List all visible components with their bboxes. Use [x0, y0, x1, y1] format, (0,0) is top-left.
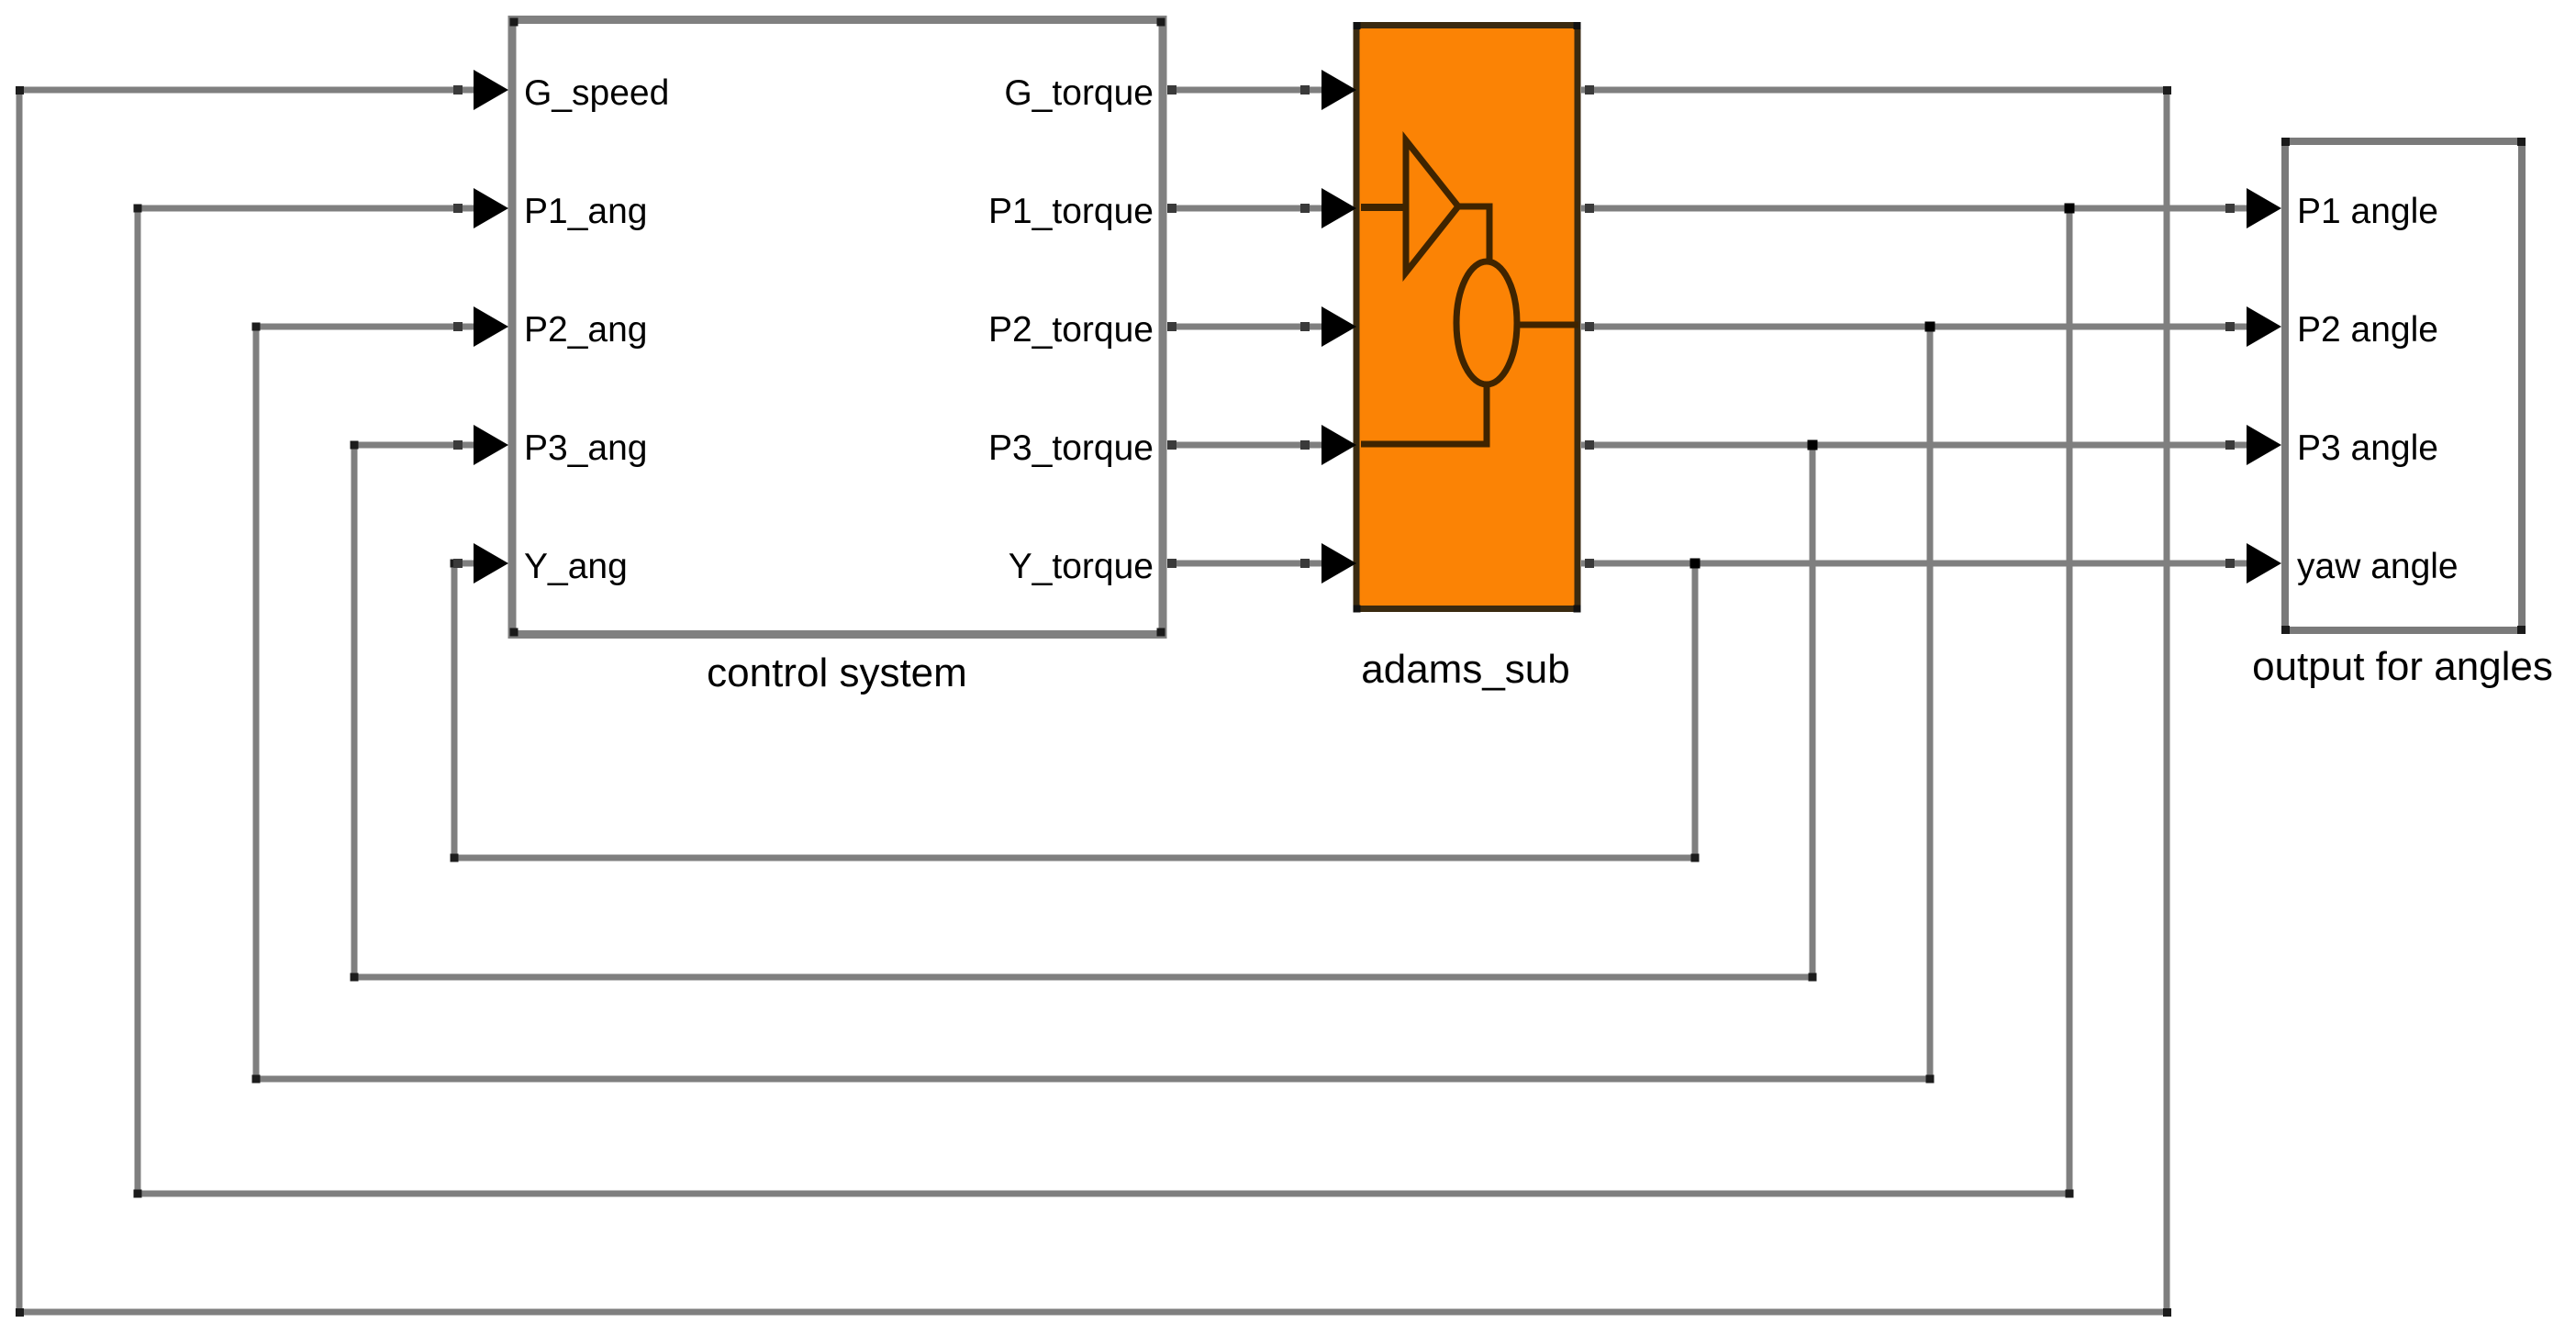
arrowhead into output P3 angle	[2247, 425, 2281, 465]
svg-text:P1_ang: P1_ang	[524, 192, 647, 231]
svg-text:yaw angle: yaw angle	[2297, 547, 2459, 586]
pre-arrow nub adams in P1	[1300, 204, 1310, 213]
wire Y out to output block	[1581, 561, 2252, 567]
arrowhead into control P1_ang	[474, 188, 508, 228]
corner dot Y loop bottom left	[451, 854, 459, 862]
adams icon ellipse bottom link	[1361, 384, 1487, 444]
arrowhead into output P1 angle	[2247, 188, 2281, 228]
wire Y feedback loop	[454, 563, 1695, 858]
corner dot G loop top left	[16, 86, 24, 94]
wire P2 feedback loop	[256, 327, 1930, 1079]
wire start nub P1_torque	[1167, 204, 1176, 213]
svg-text:P1_torque: P1_torque	[988, 192, 1154, 231]
wire start nub Y_torque	[1167, 559, 1176, 568]
wire P2_torque control to adams	[1167, 324, 1326, 330]
junction dot P1 branch	[2065, 204, 2075, 214]
corner dot Y loop bottom right	[1691, 854, 1700, 862]
svg-text:P3_ang: P3_ang	[524, 428, 647, 468]
block output for angles	[2281, 138, 2526, 634]
pre-arrow nub P2_ang	[453, 322, 463, 331]
svg-text:control system: control system	[707, 650, 967, 695]
block adams_sub	[1354, 22, 1581, 613]
wire P1 out to output block	[1581, 206, 2252, 212]
svg-text:P3_torque: P3_torque	[988, 428, 1154, 468]
corner dot P1 loop bottom left	[134, 1190, 142, 1198]
svg-text:P3 angle: P3 angle	[2297, 428, 2438, 468]
corner dot P2 loop bottom left	[252, 1075, 261, 1084]
pre-arrow nub output P1 angle	[2225, 204, 2235, 213]
wire start nub P3_torque	[1167, 440, 1176, 450]
arrowhead into adams P2	[1321, 306, 1356, 347]
adams icon input line	[1361, 204, 1406, 211]
pre-arrow nub Y_ang	[453, 559, 463, 568]
pre-arrow nub output P2 angle	[2225, 322, 2235, 331]
svg-text:P2 angle: P2 angle	[2297, 310, 2438, 350]
wire start nub adams out Y	[1585, 559, 1594, 568]
arrowhead into control Y_ang	[474, 543, 508, 584]
corner dot P1 loop bottom right	[2066, 1190, 2074, 1198]
pre-arrow nub P3_ang	[453, 440, 463, 450]
block control system	[510, 18, 1165, 637]
wire Y_torque control to adams	[1167, 561, 1326, 567]
corner dot P1 loop top left	[134, 205, 142, 213]
adams icon ellipse right link	[1517, 322, 1578, 328]
svg-text:Y_torque: Y_torque	[1009, 547, 1154, 586]
arrowhead into adams Y	[1321, 543, 1356, 584]
junction dot P2 branch	[1925, 322, 1935, 332]
pre-arrow nub P1_ang	[453, 204, 463, 213]
corner dot P2 loop top left	[252, 323, 261, 331]
wire start nub adams out G	[1585, 85, 1594, 94]
arrowhead into control G_speed	[474, 70, 508, 110]
adams icon amplifier triangle	[1406, 140, 1458, 272]
corner dot G loop bottom right	[2163, 1308, 2171, 1317]
svg-text:P2_torque: P2_torque	[988, 310, 1154, 350]
wire P3 out to output block	[1581, 442, 2252, 449]
corner dot P3 loop top left	[351, 441, 359, 450]
wire start nub adams out P3	[1585, 440, 1594, 450]
arrowhead into output yaw angle	[2247, 543, 2281, 584]
corner dot P3 loop bottom right	[1809, 973, 1817, 982]
arrowhead into output P2 angle	[2247, 306, 2281, 347]
pre-arrow nub adams in P2	[1300, 322, 1310, 331]
pre-arrow nub adams in Y	[1300, 559, 1310, 568]
svg-text:output for angles: output for angles	[2252, 644, 2553, 689]
pre-arrow nub adams in G	[1300, 85, 1310, 94]
corner dot P3 loop bottom left	[351, 973, 359, 982]
svg-text:P2_ang: P2_ang	[524, 310, 647, 350]
wire start nub adams out P1	[1585, 204, 1594, 213]
svg-text:G_torque: G_torque	[1004, 73, 1154, 113]
corner dot Y loop top left	[451, 560, 459, 568]
corner dot G loop top right	[2163, 86, 2171, 94]
wire P1_torque control to adams	[1167, 206, 1326, 212]
pre-arrow nub adams in P3	[1300, 440, 1310, 450]
arrowhead into adams P1	[1321, 188, 1356, 228]
arrowhead into adams P3	[1321, 425, 1356, 465]
arrowhead into control P2_ang	[474, 306, 508, 347]
wire P3_torque control to adams	[1167, 442, 1326, 449]
pre-arrow nub output yaw angle	[2225, 559, 2235, 568]
wire start nub G_torque	[1167, 85, 1176, 94]
adams icon apex link line	[1458, 206, 1489, 263]
wire G_torque control to adams	[1167, 87, 1326, 94]
pre-arrow nub output P3 angle	[2225, 440, 2235, 450]
junction dot Y branch	[1690, 559, 1701, 569]
arrowhead into adams G	[1321, 70, 1356, 110]
svg-text:Y_ang: Y_ang	[524, 547, 628, 586]
wire start nub P2_torque	[1167, 322, 1176, 331]
corner dot P2 loop bottom right	[1926, 1075, 1935, 1084]
svg-text:G_speed: G_speed	[524, 73, 669, 113]
arrowhead into control P3_ang	[474, 425, 508, 465]
corner dot G loop bottom left	[16, 1308, 24, 1317]
wire P1 feedback loop	[138, 208, 2069, 1194]
wire P3 feedback loop	[354, 445, 1812, 977]
wire G feedback loop	[19, 90, 2167, 1312]
svg-text:adams_sub: adams_sub	[1361, 647, 1569, 692]
adams icon ellipse	[1456, 261, 1517, 384]
junction dot P3 branch	[1808, 440, 1818, 450]
wire start nub adams out P2	[1585, 322, 1594, 331]
wire P2 out to output block	[1581, 324, 2252, 330]
pre-arrow nub G_speed	[453, 85, 463, 94]
svg-text:P1 angle: P1 angle	[2297, 192, 2438, 231]
